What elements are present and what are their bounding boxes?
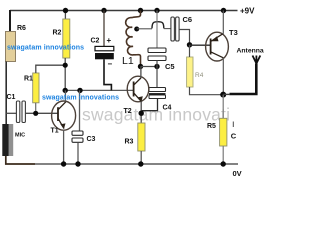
- svg-text:swagatam innovati: swagatam innovati: [82, 105, 230, 125]
- svg-text:Antenna: Antenna: [237, 48, 264, 55]
- node L1 tap: [134, 27, 139, 32]
- wire R3 bottom: [140, 151, 142, 164]
- node wire B / T1 collector: [62, 88, 67, 93]
- node T2 emitter / C4 / R3: [139, 111, 144, 116]
- wire antenna to node: [223, 93, 230, 95]
- svg-text:R3: R3: [125, 139, 134, 146]
- wire T3 collector down: [222, 58, 224, 95]
- resistor R6: [6, 32, 16, 62]
- svg-text:C3: C3: [87, 136, 96, 143]
- resistor R3: [138, 123, 145, 151]
- svg-text:C5: C5: [165, 62, 175, 71]
- svg-text:+: +: [107, 36, 112, 45]
- wire R5 bottom: [222, 146, 224, 164]
- capacitor C stub (cut): [232, 122, 234, 128]
- node rail/C2: [101, 8, 106, 13]
- transistor T3: [206, 32, 229, 61]
- wire mic/C1 branch: [6, 112, 16, 114]
- svg-text:C4: C4: [163, 105, 172, 112]
- node R1/R2 wire A: [63, 63, 68, 68]
- svg-text:0V: 0V: [233, 169, 242, 178]
- svg-text:C2: C2: [91, 38, 100, 45]
- svg-text:C: C: [231, 132, 237, 141]
- svg-text:C1: C1: [7, 94, 16, 101]
- svg-text:swagatam innovations: swagatam innovations: [7, 45, 84, 52]
- wire node to T3 base: [190, 44, 211, 46]
- wire bottom 0V rail: [35, 163, 238, 165]
- svg-text:C6: C6: [183, 15, 193, 24]
- svg-text:MIC: MIC: [15, 133, 25, 139]
- node rail / T3 emitter: [221, 8, 226, 13]
- antenna symbol: [253, 56, 261, 64]
- svg-text:swagatam innovations: swagatam innovations: [42, 95, 119, 102]
- node R3 / 0V: [138, 161, 143, 166]
- wire R1 top corner to R2 bottom node: [36, 65, 65, 73]
- node wire B / C3: [77, 88, 82, 93]
- wire top +9V rail: [10, 10, 238, 12]
- node C3 / 0V: [75, 161, 80, 166]
- wire tank bottom: [141, 66, 158, 68]
- svg-text:T2: T2: [124, 108, 132, 115]
- wire C5 node down to C4: [156, 67, 158, 88]
- wire C1 to node: [26, 112, 58, 114]
- wire below R6 down to MIC: [5, 62, 7, 125]
- svg-text:R1: R1: [24, 76, 33, 83]
- svg-text:T3: T3: [229, 28, 238, 37]
- node rail/R2: [63, 8, 68, 13]
- node junction C1/R1/T1: [33, 111, 38, 116]
- svg-text:R6: R6: [17, 25, 26, 32]
- wire rail down through hop to C5: [156, 11, 158, 49]
- transistor T2: [127, 76, 149, 102]
- svg-text:T1: T1: [51, 128, 59, 135]
- svg-text:L1: L1: [122, 55, 134, 67]
- wire R1 bottom stub: [35, 103, 37, 111]
- wire node to R5: [222, 95, 224, 119]
- capacitor C5: [148, 48, 166, 53]
- wire C3 bottom: [77, 143, 79, 165]
- wire T3 emitter to rail: [222, 11, 224, 34]
- node rail/C5: [154, 8, 159, 13]
- resistor R1: [33, 73, 39, 103]
- wire left vertical from rail to R6: [9, 10, 11, 32]
- capacitor C4: [149, 88, 166, 92]
- svg-text:R2: R2: [53, 30, 62, 37]
- node C6/R4/T3: [187, 42, 192, 47]
- wire R4 bottom to collector node: [190, 87, 224, 95]
- resistor R4: [187, 57, 193, 87]
- svg-text:R5: R5: [207, 123, 216, 130]
- microphone MIC: [2, 124, 9, 156]
- wire MIC to ground rail: [6, 156, 35, 164]
- capacitor C1: [16, 101, 19, 123]
- wire R4 top stub: [189, 45, 191, 57]
- capacitor C2 electrolytic: [95, 46, 114, 50]
- node C5 bottom: [154, 64, 159, 69]
- wire tap to hop to C6: [137, 28, 152, 30]
- node T1 emitter / 0V: [61, 161, 66, 166]
- node L1 bottom / tank: [138, 64, 143, 69]
- capacitor C3: [72, 131, 83, 135]
- wire rail to C2: [103, 11, 105, 47]
- wire R2 bottom vertical: [64, 58, 66, 90]
- wire T1 emitter down: [63, 130, 65, 164]
- wire T2 collector up to tank: [140, 67, 142, 79]
- wire C2 bottom jog to wire B: [104, 59, 111, 90]
- wire T2 emitter down: [140, 102, 142, 124]
- wire C5 bottom: [156, 61, 158, 67]
- wire hop over C5 line: [152, 22, 164, 29]
- svg-text:+9V: +9V: [240, 7, 255, 16]
- node T3 collector / R4 / R5 / antenna: [220, 92, 226, 98]
- wire C3 top: [79, 90, 81, 131]
- wire antenna thick down: [230, 64, 257, 95]
- wire C4 bottom elbow to T2 emitter: [141, 99, 157, 111]
- wire C6 right to T3 base: [179, 30, 189, 45]
- transistor T1: [52, 101, 76, 130]
- node R5 / 0V: [221, 161, 226, 166]
- wire R2 top stub to rail: [64, 11, 66, 20]
- capacitor C6: [171, 17, 175, 41]
- node rail/L1: [138, 8, 143, 13]
- inductor L1: [126, 11, 141, 67]
- resistor R2: [63, 19, 70, 58]
- resistor R5: [220, 118, 227, 146]
- svg-text:R4: R4: [195, 72, 204, 79]
- svg-text:−: −: [108, 60, 113, 69]
- wire B base line to T2: [65, 89, 133, 91]
- wire T1 collector up: [64, 90, 66, 101]
